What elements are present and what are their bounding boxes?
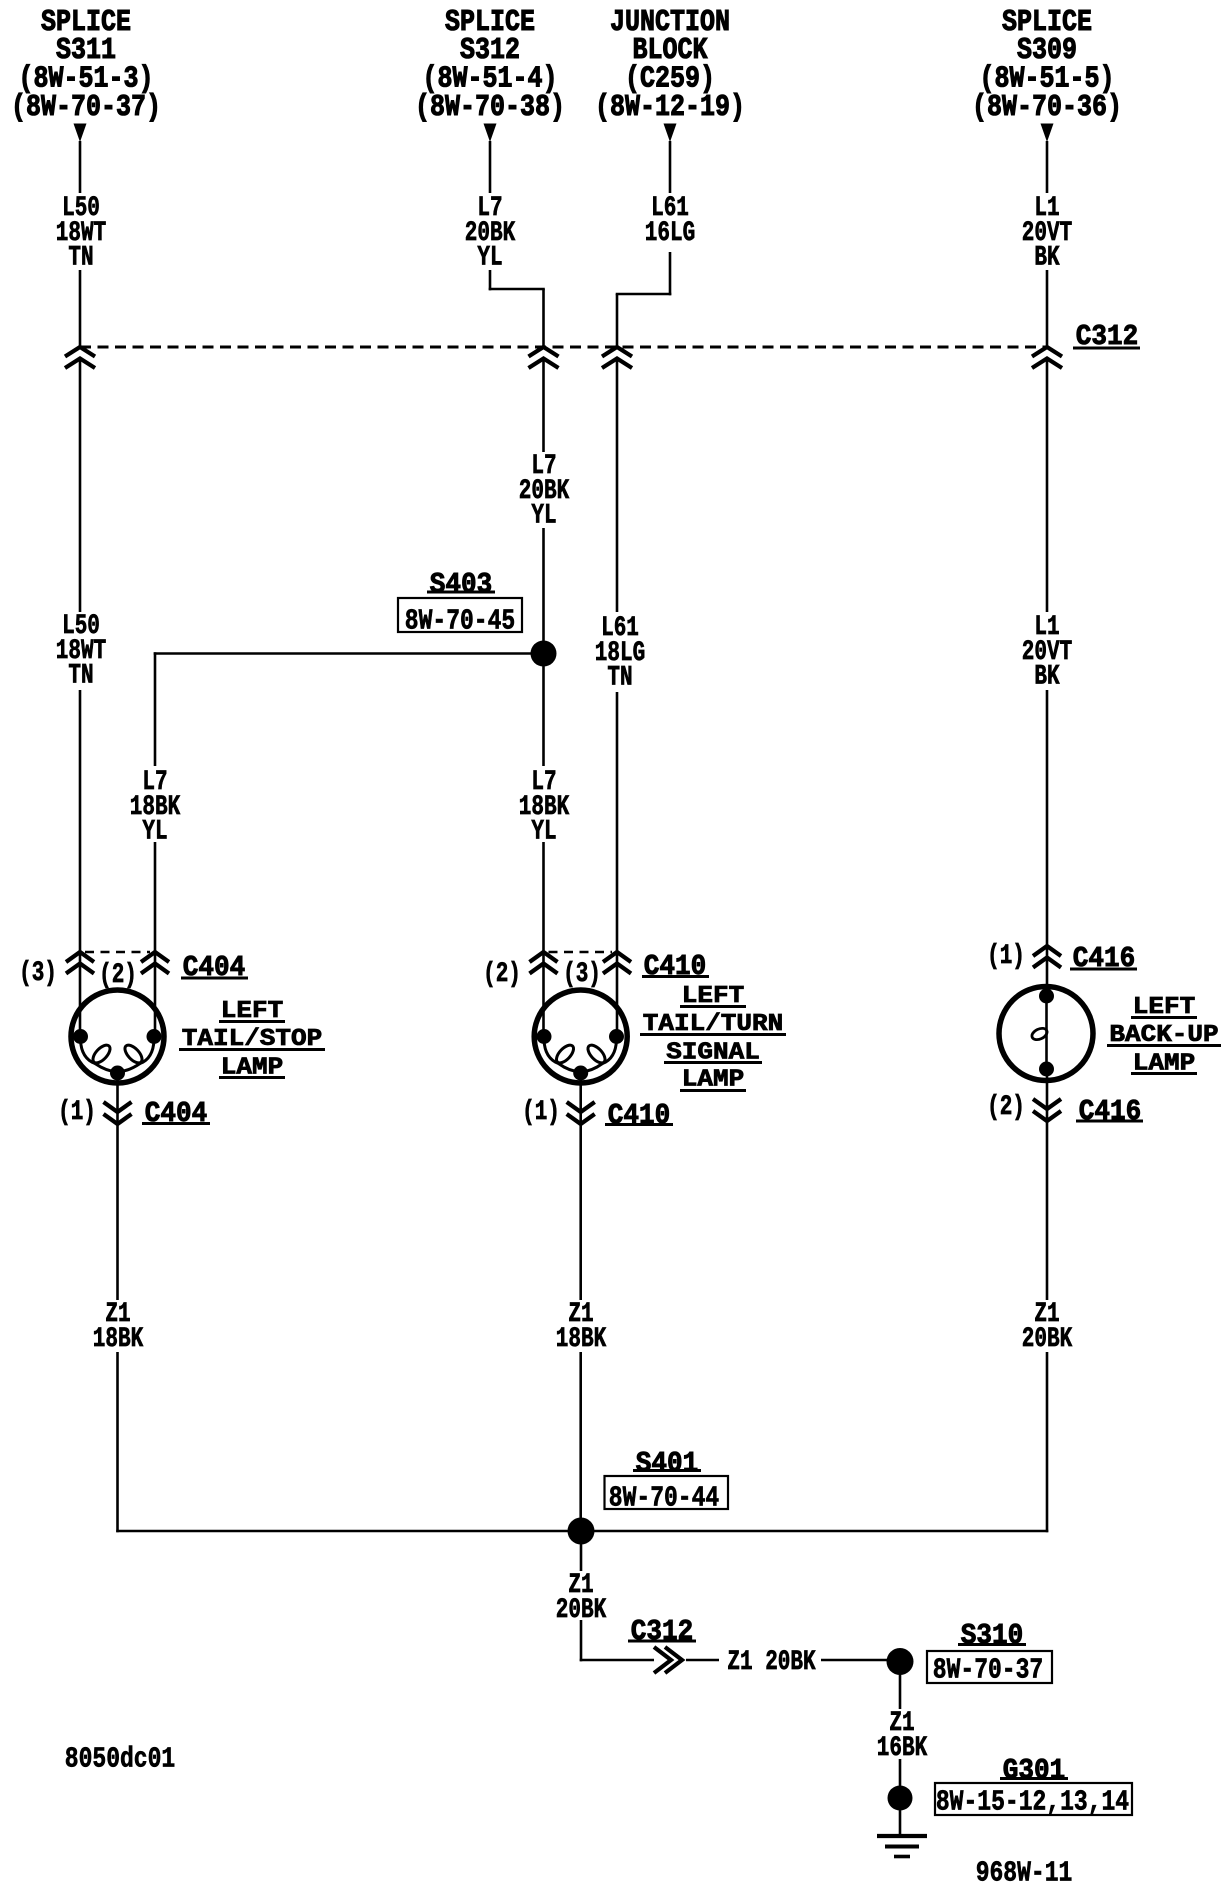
label sheet number 968W-11 [976,1859,1073,1882]
in-line connector C312 on wire L61 [602,347,632,357]
lamp3 top contact dot [1039,989,1054,1004]
connector C416 pin 1 chevrons [1033,946,1061,956]
underline of connector label C410 (top) [642,975,709,978]
lamp2 pin 3 contact dot [609,1029,624,1044]
reference box 8W-15-12,13,14 for ground G301 [935,1783,1132,1815]
label wire L7 18BK YL (column B) [519,771,569,846]
underline of lamp3 name line BACK-UP [1107,1044,1221,1047]
wire L7 20BK YL upper segment with jog [489,141,492,193]
connector C410 dashed segment [549,951,613,953]
lamp1 pin 3 contact dot [73,1029,88,1044]
label connector C416 (bottom) [1079,1097,1141,1126]
underline of lamp2 name line TAIL/TURN [640,1033,786,1036]
label connector C410 (top) [644,952,706,981]
label splice S310 [961,1621,1023,1650]
connector C410 pin 1 chevrons [567,1102,595,1112]
underline of lamp1 name line TAIL/STOP [179,1048,325,1051]
underline of ground label G301 [1000,1777,1068,1780]
lamp3 filament wire [1045,996,1048,1069]
wire Z1 20BK below S401 [580,1531,583,1571]
label wire L7 20BK YL (top) [465,197,515,272]
reference box 8W-70-37 for splice S310 [927,1651,1052,1683]
lamp1 left filament [81,1040,96,1064]
splice S403 junction dot [531,641,557,667]
label junction block C259 header [595,9,745,122]
label wire L50 18WT TN (middle) [56,615,106,690]
label wire Z1 18BK (left) [93,1303,143,1353]
splice S310 junction dot [887,1648,914,1675]
underline of splice label S401 [633,1469,701,1472]
text 8W-70-45 in reference box [405,607,515,636]
underline of lamp1 name line LAMP [219,1076,285,1079]
in-line connector C312 on wire L1 [1032,347,1062,357]
underline of connector label C410 (bottom) [605,1123,673,1126]
label lamp1 name LEFT TAIL/STOP LAMP [182,997,322,1081]
underline of connector label C416 (bottom) [1076,1120,1143,1123]
label wire Z1 20BK below S401 [556,1574,606,1624]
in-line connector C312 on wire L7 [529,347,559,357]
label wire L1 20VT BK (middle) [1022,616,1072,691]
arrowhead from junction block C259 [664,124,677,143]
label connector C410 (bottom) [608,1101,670,1130]
connector C312 dashed boundary line [80,346,1047,349]
arrowhead from splice S309 [1041,124,1054,143]
underline of connector label C416 (top) [1070,968,1137,971]
text 8W-70-44 in reference box [609,1484,719,1513]
wire L7 18BK YL from S403 down to C410 [542,654,545,767]
wire L61 18LG TN lower segment [616,358,619,612]
label connector C404 (bottom) [145,1099,207,1128]
underline of connector label C312 (top right) [1073,347,1140,350]
label lamp3 name LEFT BACK-UP LAMP [1109,993,1218,1077]
lamp2 pin 2 contact dot [537,1029,552,1044]
reference box 8W-70-45 for splice S403 [398,598,522,632]
connector C410 pin 3 chevrons [603,952,631,962]
in-line connector C312 on wire Z1 [654,1647,671,1673]
label connector C312 (top right) [1076,322,1138,351]
ground G301 symbol [877,1834,927,1838]
connector C404 pin 1 chevrons [104,1102,132,1112]
lamp2 common contact dot [573,1066,588,1081]
wire Z1 20BK horizontal to connector C312 [580,1659,654,1662]
text 8W-15-12,13,14 in reference box [936,1788,1129,1817]
underline of connector label C404 (bottom) [142,1122,210,1125]
underline of lamp1 name line LEFT [219,1020,285,1023]
lamp LEFT TAIL/STOP LAMP circle [71,990,164,1083]
label ground G301 [1003,1756,1065,1785]
label pin 2 of connector C404 [99,964,137,989]
lamp1 pin 2 contact dot [147,1029,162,1044]
label wire Z1 16BK below S310 [877,1712,927,1762]
lamp2 left filament [544,1040,559,1064]
lamp3 filament loop [1030,1026,1049,1042]
label pin 1 of connector C404 [58,1101,96,1126]
in-line connector C312 on wire L50 [65,347,95,357]
wire L7 20BK YL to splice S403 [542,358,545,452]
label wire L50 18WT TN (top) [56,197,106,272]
label wire L61 16LG [645,197,695,247]
lamp1 right filament [140,1040,154,1064]
label pin 1 of connector C410 [522,1101,560,1126]
label splice S401 [636,1449,698,1478]
underline of connector label C312 (bottom) [628,1640,696,1643]
label wire L7 18BK YL (branch) [130,771,180,846]
connector C404 pin 2 chevrons [141,952,169,962]
wire L1 20VT BK upper segment [1046,141,1049,193]
label wire Z1 20BK inline [727,1651,815,1676]
wire Z1 20BK from lamp3 [1046,1065,1049,1300]
connector C410 pin 2 chevrons [530,952,558,962]
label pin 1 of connector C416 [987,945,1025,970]
label pin 2 of connector C410 [483,963,521,988]
lamp2 right filament [603,1040,617,1064]
wire Z1 18BK from lamp2 [579,1073,582,1300]
underline of lamp3 name line LAMP [1131,1072,1197,1075]
wire Z1 18BK from lamp1 [116,1073,119,1300]
wire L7 18BK YL branch from S403 to left lamp [154,652,544,655]
wire L1 20VT BK lower segment [1046,358,1049,612]
label wire L61 18LG TN [595,617,645,692]
wire L50 18WT TN upper segment [79,141,82,193]
label splice S309 header [972,9,1122,122]
connector C404 dashed segment [85,951,150,953]
lamp LEFT TAIL/TURN SIGNAL LAMP circle [534,990,627,1083]
wire L61 16LG upper segment with jog [669,141,672,193]
label connector C312 (bottom) [631,1617,693,1646]
label pin 3 of connector C404 [19,962,57,987]
label splice S403 [430,570,492,599]
label wire L7 20BK YL (middle) [519,455,569,530]
label drawing number 8050dc01 [65,1745,175,1774]
connector C404 pin 3 chevrons [66,952,94,962]
lamp LEFT BACK-UP LAMP circle [999,987,1093,1081]
wire Z1 20BK from C312 to splice S310 [686,1659,719,1662]
underline of lamp3 name line LEFT [1131,1016,1197,1019]
text 8W-70-37 in reference box [933,1656,1043,1685]
label pin 2 of connector C416 [987,1096,1025,1121]
lamp1 common contact dot [110,1066,125,1081]
reference box 8W-70-44 for splice S401 [605,1476,729,1509]
ground G301 junction dot [888,1786,913,1811]
label splice S311 header [11,9,161,122]
label splice S312 header [415,9,565,122]
splice S401 junction dot [568,1518,595,1545]
label lamp2 name LEFT TAIL/TURN SIGNAL LAMP [643,982,783,1094]
wire Z1 run from lamp3 to splice S401 [580,1530,1048,1533]
wire Z1 16BK below S310 [899,1661,902,1709]
underline of lamp2 name line LAMP [680,1089,746,1092]
label pin 3 of connector C410 [563,963,601,988]
underline of splice label S403 [427,591,495,594]
underline of lamp2 name line SIGNAL [664,1061,762,1064]
wire stub to ground symbol [899,1798,902,1836]
underline of splice label S310 [958,1643,1026,1646]
label wire Z1 20BK (right) [1022,1303,1072,1353]
arrowhead from splice S312 [484,124,497,143]
arrowhead from splice S311 [74,124,87,143]
connector C416 pin 2 chevrons [1033,1099,1061,1109]
wire Z1 run to splice S401 [116,1530,582,1533]
lamp3 bottom contact dot [1039,1062,1054,1077]
wire L50 18WT TN lower segment [79,358,82,612]
underline of connector label C404 (top) [181,977,248,980]
underline of lamp2 name line LEFT [680,1005,746,1008]
label wire Z1 18BK (center) [556,1303,606,1353]
label connector C404 (top) [183,953,245,982]
label wire L1 20VT BK (top) [1022,197,1072,272]
label connector C416 (top) [1073,944,1135,973]
